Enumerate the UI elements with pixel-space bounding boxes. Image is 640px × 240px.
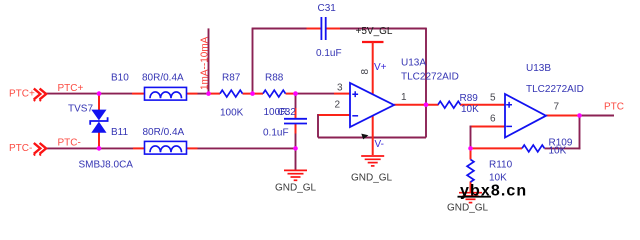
svg-text:+5V_GL: +5V_GL bbox=[356, 26, 393, 37]
junction node TVS bottom bbox=[97, 146, 102, 151]
wire U13B output pin (red) bbox=[546, 115, 580, 117]
resistor R89 bbox=[438, 101, 461, 108]
junction node C31 branch bbox=[250, 91, 255, 96]
svg-text:TLC2272AID: TLC2272AID bbox=[401, 72, 459, 83]
wire B11 to C32 ground node bbox=[198, 147, 296, 149]
junction node C32 ground bbox=[293, 146, 298, 151]
ground GND_GL (under C32) bbox=[284, 170, 307, 180]
svg-text:0.1uF: 0.1uF bbox=[263, 128, 289, 139]
wire C31 left pin (red) bbox=[307, 28, 321, 30]
svg-text:R88: R88 bbox=[265, 73, 284, 84]
svg-text:B10: B10 bbox=[111, 73, 129, 84]
junction arrow marker at V- crossing bbox=[361, 134, 368, 140]
svg-text:7: 7 bbox=[554, 102, 560, 113]
wire C31 right pin (red) bbox=[327, 28, 341, 30]
svg-text:8: 8 bbox=[360, 69, 371, 75]
resistor R87 bbox=[220, 90, 243, 97]
svg-text:U13A: U13A bbox=[401, 58, 426, 69]
power +5V_GL bar bbox=[362, 41, 384, 43]
wire pin3 stub (red) bbox=[334, 93, 350, 95]
junction node U13B output bbox=[577, 113, 582, 118]
port PTC- chevron bbox=[34, 143, 46, 156]
wire C31 top right segment bbox=[340, 28, 426, 30]
svg-text:10K: 10K bbox=[461, 104, 479, 115]
wire C32 bottom to ground node bbox=[295, 134, 297, 149]
junction node B10/TVS top bbox=[97, 91, 102, 96]
wire pin6 vertical to low rail bbox=[470, 126, 472, 149]
svg-text:GND_GL: GND_GL bbox=[447, 203, 489, 214]
wire U13A output pin (red) bbox=[394, 104, 439, 106]
ferrite bead B11 bbox=[145, 141, 187, 154]
svg-text:100K: 100K bbox=[220, 108, 244, 119]
junction node 1mA stub bbox=[206, 91, 211, 96]
svg-text:V-: V- bbox=[375, 139, 384, 150]
svg-text:R89: R89 bbox=[460, 93, 479, 104]
svg-text:6: 6 bbox=[490, 114, 496, 125]
wire R109 right to corner bbox=[545, 147, 581, 149]
resistor R110 (vertical) bbox=[467, 160, 474, 183]
svg-text:5: 5 bbox=[490, 93, 496, 104]
wire C31 top left segment bbox=[252, 28, 307, 30]
wire B11 right pin (red) bbox=[187, 147, 198, 149]
svg-text:PTC+: PTC+ bbox=[58, 83, 84, 94]
svg-text:R110: R110 bbox=[489, 160, 513, 171]
wire node C32 to op-amp pin3 bbox=[296, 93, 335, 95]
wire B10 right pin (red) bbox=[187, 93, 198, 95]
resistor R88 bbox=[263, 90, 286, 97]
svg-text:PTC+: PTC+ bbox=[9, 89, 35, 100]
wire TVS7 top pin (red) bbox=[98, 94, 100, 110]
svg-text:GND_GL: GND_GL bbox=[275, 183, 317, 194]
watermark ybx8.cn bbox=[458, 183, 528, 200]
wire between B10 and 1mA node bbox=[198, 93, 209, 95]
op-amp U13B bbox=[505, 94, 546, 138]
wire TVS7 bottom pin (red) bbox=[98, 133, 100, 149]
svg-text:B11: B11 bbox=[111, 127, 128, 138]
TVS diode TVS7 bbox=[90, 110, 107, 133]
ground GND_GL (V- of U13A) bbox=[361, 156, 384, 166]
svg-text:GND_GL: GND_GL bbox=[351, 173, 393, 184]
wire 1mA--10mA net stub bbox=[208, 28, 210, 93]
wire R88 right pin (red) bbox=[286, 93, 296, 95]
wire R110 bottom pin (red) bbox=[470, 182, 472, 193]
wire B10 left pin (red) bbox=[132, 93, 145, 95]
wire C32 bottom pin (red) bbox=[295, 123, 297, 133]
junction node pin6/R110 bbox=[468, 146, 473, 151]
svg-text:80R/0.4A: 80R/0.4A bbox=[143, 127, 185, 138]
svg-text:2: 2 bbox=[335, 100, 341, 111]
svg-text:PTC-: PTC- bbox=[58, 138, 81, 149]
svg-text:1: 1 bbox=[401, 92, 407, 103]
port PTC+ chevron bbox=[34, 89, 46, 102]
op-amp U13A bbox=[350, 83, 394, 127]
wire pin2 stub (red) bbox=[317, 114, 350, 116]
capacitor C31 bbox=[321, 17, 325, 40]
wire feedback left vertical bbox=[317, 114, 319, 137]
svg-text:3: 3 bbox=[337, 83, 343, 94]
ground GND_GL (under R110) bbox=[459, 193, 482, 203]
junction node C32 top bbox=[293, 91, 298, 96]
capacitor C32 bbox=[284, 119, 307, 124]
wire B11 left pin (red) bbox=[133, 147, 145, 149]
wire PTC+ rail from port to B10 bbox=[46, 93, 132, 95]
svg-text:0.1uF: 0.1uF bbox=[316, 48, 342, 59]
svg-text:80R/0.4A: 80R/0.4A bbox=[142, 73, 184, 84]
svg-text:TVS7: TVS7 bbox=[68, 104, 93, 115]
wire ground stem left GND_GL bbox=[295, 148, 297, 170]
wire R89 to pin5 (red) bbox=[460, 104, 505, 106]
svg-text:TLC2272AID: TLC2272AID bbox=[526, 84, 584, 95]
svg-text:C31: C31 bbox=[318, 3, 337, 14]
wire V+ / V- supply stem (red) bbox=[372, 42, 374, 155]
svg-text:PTC-: PTC- bbox=[9, 143, 32, 154]
wire C31 left branch vertical bbox=[252, 29, 254, 94]
wire C32 top pin (red) bbox=[295, 108, 297, 119]
wire R87 left pin (red) bbox=[209, 93, 221, 95]
svg-text:C32: C32 bbox=[278, 107, 297, 118]
svg-text:1mA--10mA: 1mA--10mA bbox=[199, 36, 210, 90]
svg-text:PTC: PTC bbox=[604, 102, 624, 113]
svg-text:SMBJ8.0CA: SMBJ8.0CA bbox=[79, 160, 134, 171]
wire output node vertical x=426 bbox=[425, 28, 427, 138]
svg-text:U13B: U13B bbox=[526, 63, 551, 74]
wire C32 top branch bbox=[295, 94, 297, 108]
ferrite bead B10 bbox=[145, 87, 187, 100]
wire low rail to R109 (red) bbox=[471, 147, 523, 149]
wire feedback vertical x=579.5 bbox=[579, 116, 581, 150]
svg-text:10K: 10K bbox=[549, 146, 567, 157]
resistor R109 bbox=[522, 145, 545, 152]
wire pin6 stub (red) bbox=[470, 126, 505, 128]
junction node U13A output bbox=[424, 102, 429, 107]
svg-text:V+: V+ bbox=[374, 62, 387, 73]
svg-text:R87: R87 bbox=[222, 73, 241, 84]
wire PTC- rail from port to B11 bbox=[46, 147, 133, 149]
wire output to PTC label bbox=[580, 115, 615, 117]
wire R110 top pin (red) bbox=[470, 148, 472, 159]
wire R87 right pin to R88 left pin (red) bbox=[243, 93, 264, 95]
wire feedback bottom horizontal bbox=[318, 137, 426, 139]
